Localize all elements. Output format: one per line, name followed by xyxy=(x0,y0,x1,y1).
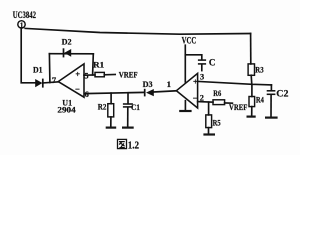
svg-text:VREF: VREF xyxy=(119,70,138,80)
diode D1 xyxy=(33,65,43,87)
svg-text:7: 7 xyxy=(52,75,57,85)
wire pin6 long run to U1B output xyxy=(84,92,144,93)
wire pin1 left vertical xyxy=(21,28,35,83)
svg-text:2: 2 xyxy=(200,94,204,103)
svg-text:1.2: 1.2 xyxy=(128,140,139,151)
ground under C2 xyxy=(265,116,278,118)
wire feedback top run xyxy=(49,53,93,55)
svg-text:VREF: VREF xyxy=(229,102,247,112)
svg-text:+: + xyxy=(193,78,198,87)
svg-text:−: − xyxy=(193,93,198,103)
svg-text:2904: 2904 xyxy=(57,105,76,115)
ground under R5 xyxy=(203,133,215,135)
resistor R2 xyxy=(98,102,114,117)
wire D1 cathode to node xyxy=(43,82,58,83)
svg-text:6: 6 xyxy=(85,90,89,99)
diode D3 xyxy=(143,80,154,96)
caption: hanzi tu (drawn) xyxy=(118,139,127,148)
wire R4 top lead xyxy=(251,84,253,96)
svg-text:R6: R6 xyxy=(213,88,222,98)
resistor R1 xyxy=(93,60,104,77)
wire pin3 run xyxy=(198,81,272,85)
wire R2 lead xyxy=(110,93,112,104)
svg-text:C: C xyxy=(209,57,216,67)
op-amp U1B triangle xyxy=(176,73,197,108)
wire R3 bottom lead xyxy=(250,75,253,84)
wire C1 top lead xyxy=(127,93,129,104)
wire VCC to C stub xyxy=(185,55,202,60)
wire C1 bottom lead xyxy=(127,108,129,127)
wire pin5 to R1 xyxy=(84,74,95,76)
wire C2 bottom lead xyxy=(270,95,272,117)
wire pin1 top run xyxy=(25,28,250,34)
op-amp U1A triangle xyxy=(58,64,84,97)
wire U1B ground stub xyxy=(184,101,186,110)
resistor R5 xyxy=(206,115,221,128)
wire R6 to VREF xyxy=(225,102,233,104)
wire top-right vertical to R3 xyxy=(250,34,252,64)
svg-text:5: 5 xyxy=(84,72,88,81)
resistor R6 xyxy=(213,88,225,104)
ground under R2 xyxy=(106,126,117,128)
capacitor C xyxy=(198,60,206,64)
wire R4 bottom lead xyxy=(251,107,253,116)
svg-text:VCC: VCC xyxy=(182,35,197,45)
ground under R4 xyxy=(247,115,256,117)
svg-text:R3: R3 xyxy=(255,64,263,74)
pin 1 bubble of UC3842 xyxy=(18,21,25,28)
svg-text:R2: R2 xyxy=(98,102,107,112)
ground below U1B xyxy=(179,110,191,112)
wire feedback down to pin5 xyxy=(92,54,95,75)
capacitor C1 xyxy=(123,104,133,107)
wire R5 top lead xyxy=(208,102,210,115)
wire feedback up xyxy=(48,54,51,83)
resistor R3 xyxy=(248,64,264,75)
wire pin2 to R6 xyxy=(198,101,213,104)
svg-text:1: 1 xyxy=(167,79,171,89)
svg-text:R1: R1 xyxy=(93,60,104,70)
wire D3 to U1B apex xyxy=(154,91,177,92)
wire R2 bottom lead xyxy=(110,117,112,127)
wire R5 bottom lead xyxy=(208,128,210,134)
svg-text:1: 1 xyxy=(20,21,24,29)
svg-text:3: 3 xyxy=(200,73,204,82)
svg-text:D1: D1 xyxy=(33,65,43,74)
svg-text:R5: R5 xyxy=(213,117,221,127)
svg-text:+: + xyxy=(75,70,80,79)
svg-text:−: − xyxy=(75,84,80,94)
wire R1 to VREF xyxy=(104,74,115,76)
svg-text:C1: C1 xyxy=(131,102,140,112)
resistor R4 xyxy=(249,94,264,106)
wire VCC down xyxy=(184,45,186,82)
wire C2 top lead xyxy=(270,85,272,90)
svg-text:C2: C2 xyxy=(276,88,288,99)
wire C bottom lead xyxy=(201,65,203,71)
ground under C1 xyxy=(122,126,134,128)
svg-text:R4: R4 xyxy=(256,94,265,104)
svg-text:UC3842: UC3842 xyxy=(13,10,36,20)
svg-text:D2: D2 xyxy=(62,37,72,46)
diode D2 xyxy=(62,37,72,57)
svg-text:D3: D3 xyxy=(143,80,153,89)
capacitor C2 xyxy=(267,91,276,95)
